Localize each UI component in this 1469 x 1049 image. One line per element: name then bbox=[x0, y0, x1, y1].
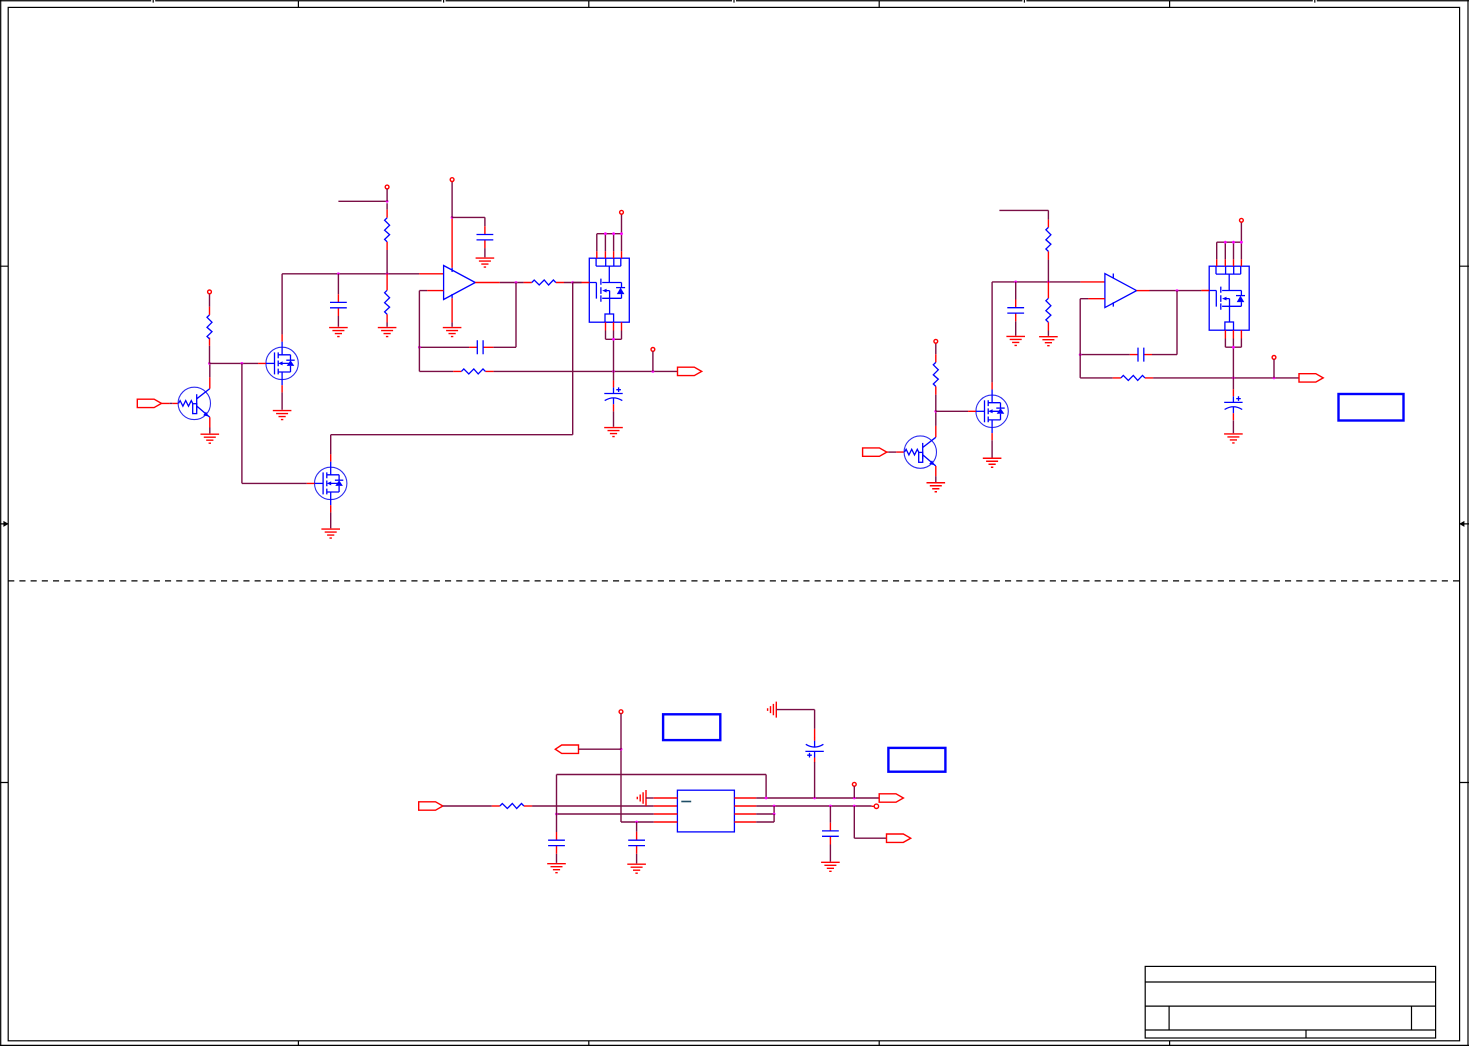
port P1 input bbox=[137, 399, 161, 407]
title block bbox=[1145, 966, 1435, 1038]
junction feedback left bbox=[418, 346, 421, 349]
wire branch to P8 bbox=[854, 806, 886, 838]
wire M1 drain up to top rail bbox=[991, 282, 993, 382]
U1 V+ pin wire bbox=[451, 217, 453, 267]
junction loop right bbox=[765, 797, 768, 800]
port circle VIN2 bbox=[1240, 218, 1244, 222]
wire P5 to R10 bbox=[492, 805, 500, 807]
mosfet package PK2 bbox=[1201, 259, 1249, 338]
wire V+ to C2 bbox=[452, 217, 485, 226]
ground at C5 bbox=[1006, 336, 1025, 345]
junction C10 bottom bbox=[813, 797, 816, 800]
wire P1 to Q1 base bbox=[162, 402, 179, 404]
junction P8 branch bbox=[853, 805, 856, 808]
wire Q4 collector to node C bbox=[935, 411, 937, 426]
top rail wire to opamp U2 bbox=[992, 281, 1080, 283]
annotation box B2 bbox=[663, 714, 720, 740]
wire IC pin3 left bbox=[654, 813, 678, 815]
ground at M1 source bbox=[991, 440, 993, 457]
capacitor C2 bbox=[484, 226, 486, 248]
wire R4 to PK1 gate bbox=[573, 282, 582, 284]
port P8 output bbox=[887, 834, 911, 842]
wire node C to M1 gate bbox=[936, 410, 968, 412]
resistor R7 bbox=[1047, 282, 1049, 331]
resistor R3 vertical below port circle bbox=[386, 210, 388, 250]
IC right pin3 wire bbox=[734, 813, 756, 815]
port circle OUT3 bbox=[852, 782, 856, 786]
resistor R1 collector pullup bbox=[209, 294, 211, 364]
wire Q2 drain up to top rail bbox=[281, 274, 283, 335]
no-connect circle bbox=[874, 804, 878, 808]
polarized capacitor C4 bbox=[613, 371, 615, 380]
wire gate node down to Q3 drain rail bbox=[331, 283, 573, 455]
capacitor C9 bbox=[636, 822, 638, 863]
junction C1 top bbox=[337, 272, 340, 275]
IC U3 bbox=[677, 790, 734, 832]
node A junction bbox=[208, 362, 211, 365]
junction pin3 riser top bbox=[773, 805, 776, 808]
loop wire pin3 to pin1-right bbox=[557, 775, 767, 815]
feedback resistor R9 bbox=[1080, 355, 1113, 378]
wire feedback to U1 inverting input bbox=[419, 291, 427, 348]
port circle EN bbox=[619, 710, 623, 714]
feedback capacitor C6 bbox=[1080, 291, 1177, 355]
junction P7 circle node bbox=[853, 797, 856, 800]
junction vertical1 bbox=[555, 813, 558, 816]
wire Q1 collector to node A bbox=[209, 363, 211, 377]
ground at C9 bbox=[627, 864, 646, 873]
junction output-feedback right bbox=[1176, 289, 1179, 292]
annotation box B1 bbox=[1339, 394, 1404, 421]
resistor R4 series output bbox=[524, 282, 564, 284]
port circle OUT2 bbox=[1272, 356, 1276, 360]
section divider dashed line bbox=[8, 580, 1459, 582]
port circle V+ bbox=[450, 178, 454, 182]
junction R2 top bbox=[386, 272, 389, 275]
wire P3 to Q4 base bbox=[887, 451, 905, 453]
junction output-feedback bbox=[515, 281, 518, 284]
polarized capacitor C7 bbox=[1232, 378, 1234, 389]
opamp U1 bbox=[444, 266, 476, 300]
sideways ground top bbox=[768, 702, 777, 718]
port circle VCC2 bbox=[934, 339, 938, 343]
transistor Q1 digital npn bbox=[178, 377, 210, 427]
wire P6 to node bbox=[579, 748, 622, 750]
ground at C11 bbox=[821, 862, 840, 871]
junction source node bbox=[612, 370, 615, 373]
resistor R2 bbox=[386, 274, 388, 323]
junction port circle node bbox=[652, 370, 655, 373]
stub wire and port circle above R1b bbox=[338, 201, 387, 209]
stub wire top bbox=[999, 210, 1048, 219]
wire node A to Q2 gate bbox=[210, 362, 259, 364]
wire sgnd to C10 bbox=[776, 710, 814, 729]
capacitor C1 bbox=[337, 274, 339, 327]
feedback resistor R5 bbox=[419, 347, 453, 371]
ground at Q1 emitter bbox=[209, 428, 211, 434]
capacitor C11 bbox=[829, 806, 831, 862]
U1 output wire bbox=[475, 282, 500, 284]
ground at C2 bbox=[476, 258, 495, 267]
transistor Q4 digital npn bbox=[904, 426, 936, 476]
junction C5 top bbox=[1014, 281, 1017, 284]
junction C11 top bbox=[829, 805, 832, 808]
port P3 input bbox=[863, 448, 887, 456]
PK2 source bus bottom bbox=[1225, 339, 1241, 378]
ground at Q2 source bbox=[281, 392, 283, 409]
top rail wire to opamp bbox=[282, 273, 419, 275]
IC right pin4 wire bbox=[734, 821, 756, 823]
node C junction bbox=[934, 410, 937, 413]
U1 V- pin to ground bbox=[451, 294, 453, 298]
output rail wire bbox=[494, 370, 678, 372]
junction R7 top bbox=[1047, 281, 1050, 284]
junction C9 top bbox=[635, 821, 638, 824]
ground at Q4 emitter bbox=[935, 476, 937, 482]
U2 output wire bbox=[1137, 290, 1150, 292]
IC right pin1 wire bbox=[734, 797, 756, 799]
wire feedback to U2 inverting input bbox=[1080, 299, 1088, 355]
PK1 source bus bottom bbox=[606, 331, 622, 372]
port P4 output bbox=[1299, 374, 1323, 382]
polarized capacitor C10 bbox=[814, 729, 816, 738]
wire R10 to IC pin2 bbox=[532, 805, 654, 807]
resistor R8 vertical top bbox=[1047, 220, 1049, 260]
junction P6 node bbox=[620, 748, 623, 751]
IC right pin2 wire bbox=[734, 805, 756, 807]
port circle VIN1 bbox=[620, 210, 624, 214]
mosfet M1 bbox=[968, 382, 1008, 440]
mosfet Q3 bbox=[307, 454, 347, 512]
resistor R6 collector pullup bbox=[935, 343, 937, 411]
port circle VCC1 bbox=[208, 290, 212, 294]
port P7 output bbox=[879, 794, 903, 802]
feedback capacitor C3 bbox=[419, 283, 516, 348]
wire IC pin4 left bbox=[654, 821, 678, 823]
annotation box B3 bbox=[888, 748, 945, 772]
resistor R10 bbox=[500, 804, 524, 809]
sideways ground at IC pin1 bbox=[637, 790, 646, 806]
port circle OUT1 bbox=[651, 348, 655, 352]
ground at C1 bbox=[329, 328, 348, 337]
mosfet Q2 bbox=[258, 334, 298, 392]
ground at R7 bbox=[1039, 337, 1058, 346]
node B junction bbox=[241, 362, 244, 365]
opamp U2 bbox=[1105, 274, 1137, 308]
junction feedback left right-circuit bbox=[1079, 353, 1082, 356]
wire node B down to Q3 gate bbox=[242, 363, 307, 483]
junction gate node bbox=[571, 281, 574, 284]
ground at R2 bbox=[378, 328, 397, 337]
ground at C4 bbox=[604, 428, 623, 437]
ground at Q3 source bbox=[330, 512, 332, 528]
ground at U1 bbox=[443, 328, 462, 337]
capacitor C5 bbox=[1015, 282, 1017, 336]
PK1 drain bus top bbox=[597, 214, 622, 251]
port P2 output bbox=[678, 367, 702, 375]
junction port circle node right bbox=[1273, 377, 1276, 380]
junction source node right bbox=[1232, 377, 1235, 380]
PK2 drain bus top bbox=[1217, 222, 1242, 259]
mosfet package PK1 bbox=[582, 251, 630, 330]
output rail wire right bbox=[1153, 377, 1299, 379]
U2 power stubs bbox=[1112, 274, 1114, 307]
port P6 left-pointing bbox=[555, 745, 578, 753]
junction pin3 right bbox=[773, 813, 776, 816]
ground at C7 bbox=[1224, 434, 1243, 443]
port P5 input bbox=[419, 802, 443, 810]
ground at C8 bbox=[547, 864, 566, 873]
capacitor C8 below vertical1 bbox=[556, 814, 558, 863]
